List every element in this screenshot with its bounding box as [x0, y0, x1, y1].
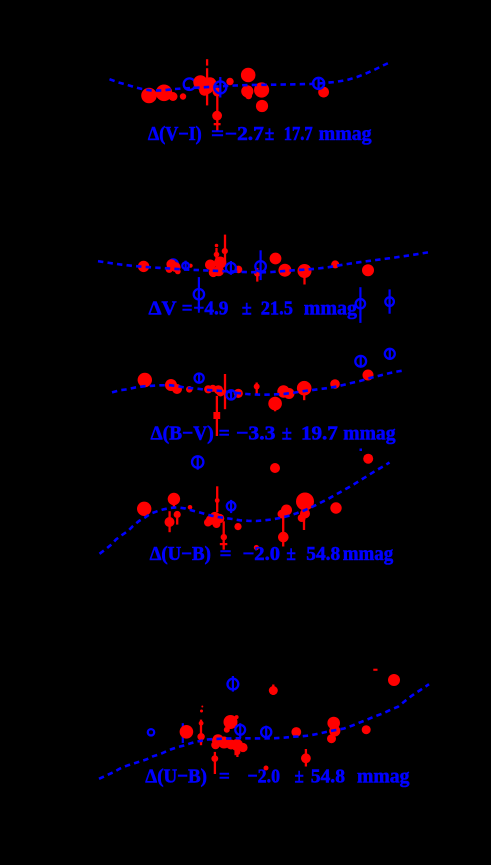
red point (215,759) [211, 755, 218, 762]
panel 3 [112, 349, 403, 445]
red point (208,389) [204, 385, 212, 393]
red point (237,752) [234, 749, 240, 755]
red point (243,748) [238, 743, 247, 752]
svg-text:mmag: mmag [304, 298, 358, 320]
red point (238,527) [234, 523, 241, 530]
red point (173,96) [169, 92, 178, 101]
red error bar x=201 [200, 720, 202, 746]
red error bar x=215 [214, 752, 216, 774]
red point (275,468) [270, 463, 280, 473]
blue open-circle point (266,732) [261, 726, 271, 739]
blue open-circle point (199,378) [195, 373, 204, 383]
red point (304,271) [298, 264, 312, 278]
red point (214,740) [212, 738, 217, 743]
red point (215,517) [210, 512, 221, 523]
red point (149,96) [141, 88, 157, 104]
red point (306,758) [301, 753, 311, 763]
red point (216,254) [214, 252, 220, 258]
red point (217,116) [212, 111, 222, 121]
red point (211,520) [206, 515, 216, 525]
red point (262,106) [256, 100, 268, 112]
svg-text:Δ(V−I): Δ(V−I) [148, 124, 202, 145]
red point (275,404) [268, 397, 282, 411]
red point (394,680) [388, 674, 400, 686]
red error bar x=170 [168, 511, 170, 532]
red point (217,500) [215, 498, 220, 503]
svg-text:Δ(B−V): Δ(B−V) [151, 422, 214, 444]
red point (204,90) [199, 85, 210, 96]
red point (302,518) [298, 514, 306, 522]
red error bar x=306 [305, 749, 307, 767]
red error bar x=225 [224, 374, 226, 409]
svg-text:54.8: 54.8 [306, 543, 340, 565]
red point (368,270) [362, 264, 374, 276]
red point (219,271) [213, 266, 224, 277]
red point (284,392) [277, 385, 289, 397]
red point (305,502) [296, 493, 314, 511]
red point (238,269) [235, 266, 243, 274]
blue open-circle point (151,732) [148, 729, 154, 735]
svg-text:ΔV: ΔV [149, 298, 177, 320]
svg-text:=: = [220, 543, 232, 565]
red point (201,741) [199, 739, 203, 743]
red point (201,723) [199, 721, 204, 726]
red point (183,96) [180, 93, 186, 99]
red point (248,75) [241, 68, 256, 83]
blue open-circle point (360,304) [356, 287, 365, 323]
svg-text:mmag: mmag [343, 543, 393, 565]
panel 1 fitted dashed curve [110, 62, 392, 91]
red point (164,93) [156, 85, 173, 102]
red point (220,518) [215, 514, 225, 524]
blue error bar behind red [182, 723, 184, 743]
red point (169,269) [166, 266, 173, 273]
panel 5 [99, 669, 429, 788]
red point (174,499) [168, 493, 180, 505]
red point (144,509) [137, 502, 151, 516]
svg-text:19.7: 19.7 [301, 422, 338, 444]
red error bar x=177 [176, 518, 178, 525]
red point (249,96) [245, 92, 252, 99]
svg-text:17.7: 17.7 [284, 124, 313, 145]
red error bar x=304 [303, 277, 305, 285]
red point (213,272) [209, 268, 218, 277]
blue open-circle point (231,506) [227, 500, 236, 513]
svg-text:±: ± [286, 543, 296, 565]
red point (289,394) [284, 388, 295, 399]
blue open-circle point (198,462) [192, 456, 203, 469]
red error bar x=275 [274, 397, 276, 412]
red error bar x=304 [303, 393, 305, 400]
red point (171,385) [165, 379, 177, 391]
red cap [213, 412, 220, 419]
svg-text:±: ± [265, 124, 275, 145]
blue open-circle point (199,294) [194, 277, 204, 310]
red point (170,522) [165, 517, 175, 527]
red error bar x=225 [224, 235, 226, 266]
red point (336,508) [330, 502, 341, 513]
red point (368,459) [363, 454, 373, 464]
panel 1 [110, 59, 392, 145]
red point (206,86) [198, 78, 214, 94]
red point (208,522) [204, 519, 212, 527]
svg-text:54.8: 54.8 [311, 765, 345, 787]
svg-text:21.5: 21.5 [261, 298, 293, 320]
svg-text:mmag: mmag [357, 765, 410, 787]
red error bar x=257 [256, 268, 258, 282]
red point (225,251) [222, 248, 228, 254]
red point (257,386) [254, 384, 260, 390]
panel 3 fitted dashed curve [112, 371, 403, 395]
blue speck [360, 449, 363, 452]
red point (213,388) [209, 385, 216, 392]
red point (216,246) [215, 244, 219, 248]
red point (285,270) [278, 264, 291, 277]
red point (200,82) [193, 75, 207, 89]
red point (177,514) [174, 511, 181, 518]
red point (217,92) [213, 88, 222, 97]
red point (220,263) [214, 257, 226, 269]
svg-text:mmag: mmag [343, 422, 395, 444]
red error bar x=237 [236, 752, 238, 757]
red point (144,266) [138, 261, 149, 272]
red point (224,537) [221, 534, 227, 540]
red point (216,524) [213, 520, 221, 528]
blue open-circle point (220,87) [214, 77, 226, 98]
svg-text:mmag: mmag [319, 124, 372, 145]
red point (177,389) [172, 384, 182, 394]
svg-text:=: = [182, 298, 193, 320]
red point (304,388) [297, 381, 312, 396]
blue open-circle point (390,354) [385, 349, 395, 359]
red point (230,82) [226, 78, 233, 85]
red point (201,737) [197, 733, 204, 740]
red point (171,264) [166, 259, 176, 269]
red point (335,264) [331, 260, 339, 268]
blue open-circle point (240,730) [235, 723, 245, 738]
svg-text:−2.0: −2.0 [248, 765, 281, 787]
red point (266,768) [264, 766, 269, 771]
panel 4 [100, 454, 394, 565]
red error bar x=216 [215, 248, 217, 266]
blue open-circle point (231,268) [226, 261, 236, 275]
red error bar x=283 [282, 517, 284, 546]
blue open-circle point (390,302) [385, 289, 394, 313]
red point (257,273) [254, 270, 261, 277]
red point (218,390) [214, 385, 223, 394]
red point (368,375) [363, 370, 374, 381]
red cap [373, 669, 377, 671]
svg-text:+4.9: +4.9 [193, 298, 228, 320]
blue open-circle point (261,266) [255, 250, 266, 280]
svg-text:−2.0: −2.0 [243, 543, 280, 565]
blue open-circle point (233,684) [228, 676, 239, 692]
svg-text:=: = [219, 422, 230, 444]
red point (191,266) [189, 264, 193, 268]
red point (190,507) [188, 505, 193, 510]
red point (230,722) [224, 715, 238, 729]
red point (296,732) [291, 727, 301, 737]
svg-text:−2.7: −2.7 [225, 124, 264, 145]
red error bar x=236 [234, 748, 236, 755]
red error bar x=217 [216, 486, 218, 512]
red point (247,91) [241, 85, 253, 97]
red point (202,706) [201, 706, 203, 708]
red point (286,510) [281, 505, 292, 516]
blue open-circle point (231,395) [227, 390, 236, 400]
red point (273,690) [269, 686, 278, 695]
red point (178,271) [175, 269, 181, 275]
red point (282,514) [278, 510, 287, 519]
red point (324,92) [318, 87, 329, 98]
red point (237,745) [231, 739, 243, 751]
red point (238,393) [234, 389, 243, 398]
red point (218,740) [213, 734, 224, 745]
red cap [220, 543, 228, 545]
blue panel1 hidden open circle (190,84) [184, 78, 196, 90]
panel 4 fitted dashed curve [100, 463, 390, 554]
red point (366,730) [362, 725, 371, 734]
red point (276,258) [270, 253, 282, 265]
red error bar x=207 [206, 68, 208, 105]
red point (210,265) [205, 260, 216, 271]
panel 2 fitted dashed curve [98, 252, 429, 272]
red error bar x=174 [173, 504, 175, 508]
red error bar x=257 [256, 383, 258, 394]
panel 2 [98, 235, 429, 323]
blue open-circle point (361,361) [355, 356, 366, 367]
red cap [214, 123, 221, 125]
svg-text:=: = [219, 765, 230, 787]
red point (231,744) [226, 740, 236, 750]
red point (283,537) [278, 532, 289, 543]
red point (335,384) [330, 379, 340, 389]
red error bar x=207 [206, 59, 208, 65]
red error bar x=273 [272, 685, 274, 696]
red point (220,392) [216, 388, 224, 396]
svg-text:±: ± [295, 765, 304, 787]
red point (227,730) [224, 727, 230, 733]
svg-text:−3.3: −3.3 [236, 422, 275, 444]
svg-text:Δ(U−B): Δ(U−B) [150, 543, 211, 565]
red point (176,267) [171, 262, 181, 272]
red point (335,731) [329, 725, 340, 736]
red point (305,514) [300, 509, 310, 519]
red point (210,84) [204, 77, 217, 90]
svg-text:±: ± [242, 298, 252, 320]
svg-text:Δ(U−B): Δ(U−B) [145, 765, 207, 787]
svg-text:=: = [211, 124, 224, 145]
panel 5 fitted dashed curve [99, 684, 429, 779]
red error bar x=217 [216, 95, 218, 132]
red point (256,548) [254, 545, 259, 550]
red point (334,723) [327, 717, 340, 730]
red point (237,717) [235, 715, 239, 719]
blue panel2 hidden open circle (173,264) [169, 259, 178, 268]
red point (202,711) [200, 710, 203, 713]
red point (216,745) [211, 741, 220, 750]
red point (186,732) [180, 725, 194, 739]
blue open-circle point (319,83) [313, 78, 324, 90]
red error bar x=224 [223, 521, 225, 549]
red error bar x=304 [303, 519, 305, 530]
red point (145,380) [138, 373, 152, 387]
red error bar x=217 [216, 396, 218, 436]
blue open-circle point (186,266) [182, 261, 189, 271]
red point (332,739) [327, 734, 336, 743]
red point (262,90) [254, 82, 269, 97]
red point (224,742) [218, 737, 230, 749]
svg-text:±: ± [282, 422, 292, 444]
red point (189,389) [186, 386, 193, 393]
